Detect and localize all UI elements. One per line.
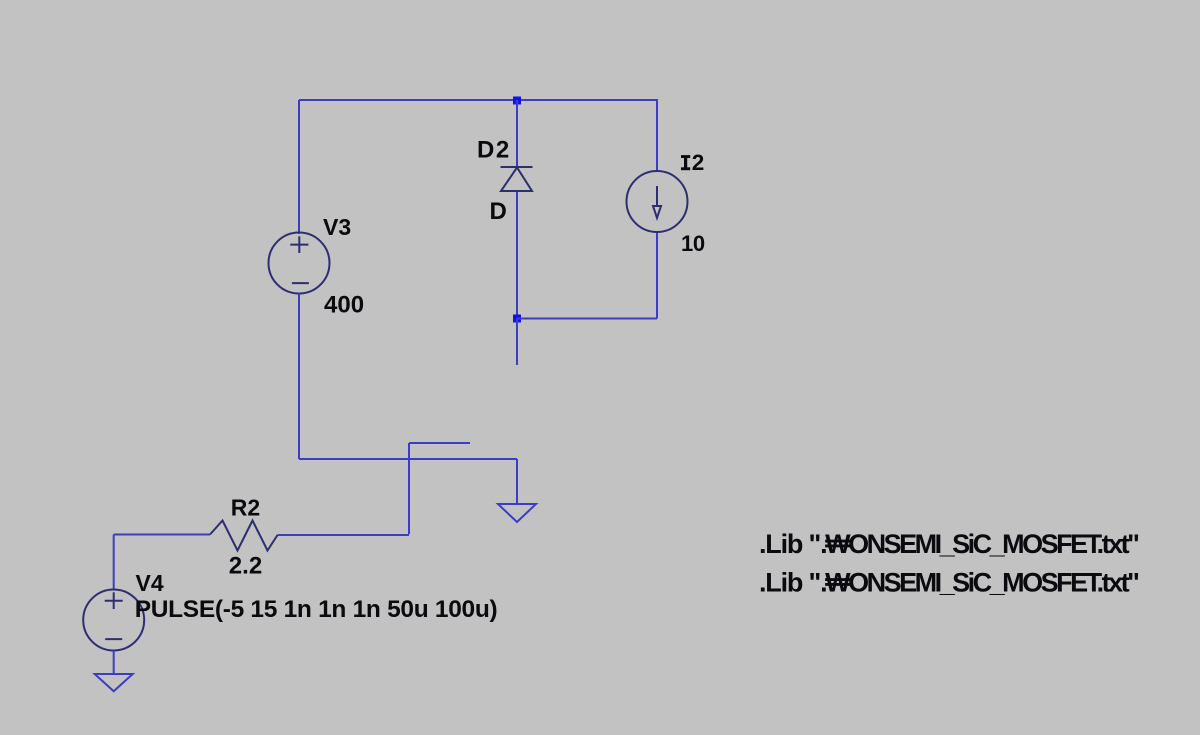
wire V3 to ground horizontal (299, 458, 517, 460)
voltage source V4 (83, 590, 144, 651)
wire I2 top (656, 100, 658, 172)
ground (498, 504, 536, 522)
svg-text:2.2: 2.2 (229, 553, 262, 580)
wire diode bottom to lower rail (516, 191, 518, 319)
wire V4 top (113, 535, 115, 591)
label I2 (681, 155, 690, 170)
svg-text:2: 2 (692, 150, 705, 175)
wire ground drop (516, 459, 518, 503)
svg-text:PULSE(-5 15 1n 1n 1n 50u 100u): PULSE(-5 15 1n 1n 1n 50u 100u) (135, 596, 498, 623)
svg-text:400: 400 (324, 292, 364, 319)
voltage source V3 (269, 233, 330, 294)
wire V4 bottom (113, 651, 115, 674)
svg-text:V4: V4 (136, 570, 164, 596)
svg-text:V3: V3 (323, 214, 351, 240)
ground (95, 674, 133, 691)
diode D2 (501, 167, 533, 191)
wire gate stub (409, 442, 470, 444)
node junction lower (513, 315, 521, 323)
node junction top (513, 97, 521, 105)
svg-text:.Lib ".₩ONSEMI_SiC_MOSFET.txt": .Lib ".₩ONSEMI_SiC_MOSFET.txt" (759, 568, 1139, 598)
wire top rail (299, 99, 658, 101)
wire diode top (516, 100, 518, 166)
svg-text:10: 10 (681, 231, 705, 256)
svg-text:D2: D2 (477, 137, 511, 164)
wire drain stub (516, 319, 518, 366)
svg-text:R2: R2 (231, 495, 260, 521)
current source I2 (627, 171, 688, 232)
wire left vertical to V3 (298, 100, 300, 234)
wire I2 bottom (656, 231, 658, 319)
svg-text:.Lib ".₩ONSEMI_SiC_MOSFET.txt": .Lib ".₩ONSEMI_SiC_MOSFET.txt" (759, 529, 1139, 559)
wire lower rail to I2 (517, 318, 657, 320)
svg-text:D: D (490, 198, 507, 225)
wire R2 left (114, 534, 210, 536)
wire V3 bottom (298, 293, 300, 459)
resistor R2 (210, 521, 278, 551)
wire gate vertical (408, 443, 410, 534)
wire R2 right (278, 534, 410, 536)
